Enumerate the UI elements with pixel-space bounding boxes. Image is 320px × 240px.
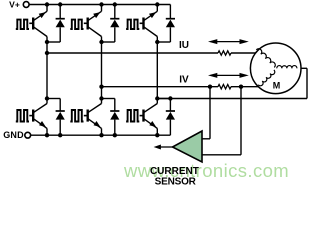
arrow sensor output [154,145,173,150]
wire leg U vertical [46,42,48,99]
terminal V+ [23,2,29,8]
node GND rail junctions [45,133,160,137]
diode D3 [157,5,175,43]
svg-text:IU: IU [179,40,189,51]
motor winding V [258,70,275,86]
node phase V top [99,40,103,44]
op-amp current sensor [173,131,203,162]
pwm gate signal bottom Q6 [126,110,143,122]
svg-text:GND: GND [3,130,24,140]
diode D4 [47,99,65,136]
pwm gate signal top Q3 [126,20,143,29]
node RV sense left [208,85,212,89]
arrow current IU [208,39,249,44]
wire W line [157,98,307,100]
svg-text:SENSOR: SENSOR [155,176,197,187]
diode D6 [157,99,175,136]
svg-text:www.cntronics.com: www.cntronics.com [123,160,289,181]
wire leg V vertical [101,42,103,99]
wire motor W return [301,68,307,98]
diode D5 [102,99,120,136]
svg-text:IV: IV [179,75,189,86]
node IU tap [45,51,49,55]
wire leg W vertical [156,42,158,99]
resistor shunt RU [218,51,231,55]
wire IU line [47,52,257,54]
node W tap [155,96,159,100]
pwm gate signal top Q1 [16,20,33,29]
node RV sense right [239,85,243,89]
motor M circle [250,43,301,94]
pwm gate signal bottom Q5 [70,110,87,122]
node phase V bottom [99,96,103,100]
resistor shunt RV [218,85,231,89]
wire GND rail [31,134,171,136]
pwm gate signal bottom Q4 [16,110,33,122]
terminal GND [25,132,31,138]
node phase U top [45,40,49,44]
diode D1 [47,5,65,43]
label M [273,81,281,91]
label IV [179,75,189,86]
arrow current IV [208,73,249,78]
transistor Q2 [88,5,102,43]
transistor Q5 [88,99,102,136]
wire sense left [201,87,210,139]
label V+ [9,0,20,9]
transistor Q3 [144,5,158,43]
node W diode junction [168,96,172,100]
motor winding W [277,66,297,69]
label IU [179,40,189,51]
svg-text:M: M [273,81,281,91]
label GND [3,130,24,140]
label CURRENT SENSOR [150,166,199,187]
watermark www.cntronics.com [123,160,289,181]
motor winding U [256,49,275,68]
node V+ rail junctions [45,2,160,6]
diode D2 [102,5,120,43]
node phase U bottom [45,96,49,100]
svg-text:V+: V+ [9,0,20,9]
transistor Q4 [33,99,47,136]
wire V+ rail [29,4,170,6]
wire sense right [201,87,241,155]
node IV tap [99,85,103,89]
transistor Q1 [33,5,47,43]
transistor Q6 [144,99,158,136]
pwm gate signal top Q2 [70,20,87,29]
node phase W top [155,40,159,44]
wire IV line [102,86,260,88]
